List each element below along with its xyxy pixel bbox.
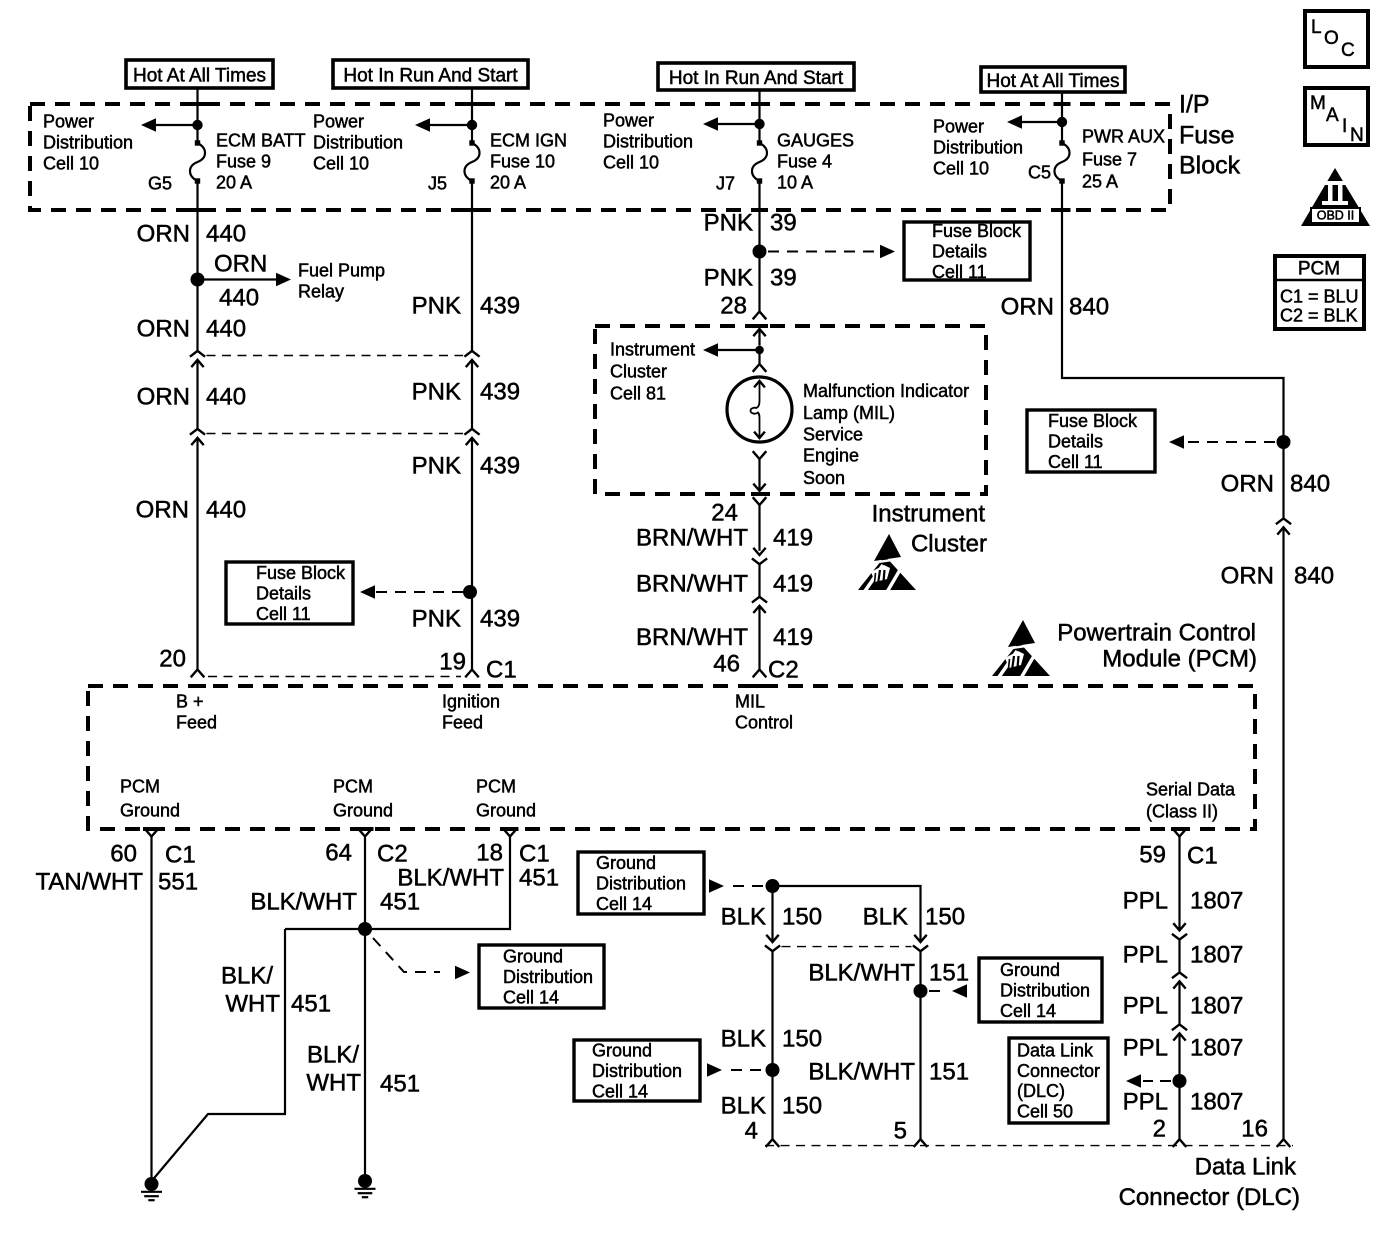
svg-text:840: 840 xyxy=(1290,471,1330,498)
svg-text:Fuse 4: Fuse 4 xyxy=(777,152,832,172)
svg-text:Fuse 9: Fuse 9 xyxy=(216,152,271,172)
PCM pin 46 connector fork xyxy=(753,670,767,678)
dashed arrow to Ground Distribution Cell 14 (right) xyxy=(929,984,967,998)
svg-text:C2: C2 xyxy=(768,657,799,684)
svg-text:C2 = BLK: C2 = BLK xyxy=(1280,306,1358,326)
svg-text:ORN: ORN xyxy=(1221,563,1274,590)
svg-text:440: 440 xyxy=(206,221,246,248)
svg-text:Connector: Connector xyxy=(1017,1061,1100,1081)
svg-text:M: M xyxy=(1310,93,1326,114)
svg-text:25 A: 25 A xyxy=(1082,172,1118,192)
label BLK/WHT 451 (pin 64) xyxy=(250,889,420,916)
svg-text:Fuse Block: Fuse Block xyxy=(1048,411,1138,431)
svg-text:439: 439 xyxy=(480,293,520,320)
callout box: Ground Distribution Cell 14 (right) xyxy=(979,958,1102,1022)
svg-text:Fuse Block: Fuse Block xyxy=(256,563,346,583)
label BLK/WHT 151 (2) xyxy=(808,1059,969,1086)
pin G5 xyxy=(148,174,172,194)
splice dashed line 1 xyxy=(207,355,464,357)
label BRN/WHT 419 (2) xyxy=(636,571,813,598)
svg-text:Fuse 7: Fuse 7 xyxy=(1082,150,1137,170)
legend icon MAIN xyxy=(1305,88,1368,146)
wire BLK 150 (pin 4 branch upper) xyxy=(771,886,773,942)
svg-text:Fuse 10: Fuse 10 xyxy=(490,152,555,172)
svg-text:10 A: 10 A xyxy=(777,173,813,193)
dashed arrow from Ground Distribution Cell 14 (lower) to splice xyxy=(707,1063,765,1077)
Instrument Cluster dashed outline xyxy=(595,326,986,494)
wire ORN 840: fuse 7 down, over to right, down to junction xyxy=(1062,181,1284,518)
label ORN 440 (4) xyxy=(136,497,246,524)
svg-text:Cell 14: Cell 14 xyxy=(592,1081,648,1101)
svg-text:BLK: BLK xyxy=(863,904,908,931)
wire PNK 439 segment: fuse 10 down xyxy=(471,181,473,351)
wire: Hot At All Times feed to Fuse 7 xyxy=(1061,92,1063,143)
DLC pin 16 fork xyxy=(1277,1139,1291,1147)
svg-text:BLK/: BLK/ xyxy=(221,963,273,990)
svg-text:Cell 11: Cell 11 xyxy=(256,604,311,624)
label box: Hot In Run And Start (ECM IGN feed) xyxy=(333,60,528,88)
svg-text:ORN: ORN xyxy=(214,251,267,278)
svg-text:4: 4 xyxy=(745,1118,758,1145)
svg-text:419: 419 xyxy=(773,525,813,552)
label box: Hot In Run And Start (GAUGES feed) xyxy=(658,63,854,90)
svg-text:151: 151 xyxy=(929,1059,969,1086)
svg-text:1807: 1807 xyxy=(1190,993,1243,1020)
cluster pin 24 fork below border xyxy=(753,497,767,551)
callout box: Fuse Block Details Cell 11 (top) xyxy=(904,221,1030,282)
label PNK 39 (1) xyxy=(704,210,797,237)
DLC pin 5 fork xyxy=(914,1139,928,1147)
wire PPL 1807 segment 2 xyxy=(1178,940,1180,973)
label PNK 439 (3) xyxy=(412,453,520,480)
svg-text:I/P: I/P xyxy=(1179,91,1210,119)
junction on fuse 4 feed xyxy=(754,119,764,129)
DLC pin 2 fork xyxy=(1173,1139,1187,1147)
svg-text:WHT: WHT xyxy=(306,1070,361,1097)
junction: fuse block details tap on ORN 840 xyxy=(1277,435,1291,449)
wire BLK/WHT 451 from pin 64 down xyxy=(364,837,366,1175)
svg-text:Serial Data: Serial Data xyxy=(1146,780,1236,800)
PCM pin 64 fork xyxy=(358,829,372,837)
svg-text:Distribution: Distribution xyxy=(313,133,403,153)
svg-text:Data Link: Data Link xyxy=(1017,1041,1094,1061)
svg-text:Powertrain Control: Powertrain Control xyxy=(1057,620,1256,647)
svg-text:Cell 14: Cell 14 xyxy=(1000,1001,1056,1021)
in-line connector (up) on PPL 1 xyxy=(1172,972,1187,988)
svg-text:59: 59 xyxy=(1139,842,1166,869)
pin J5 xyxy=(428,174,447,194)
svg-text:C2: C2 xyxy=(377,841,408,868)
svg-text:Distribution: Distribution xyxy=(43,133,133,153)
svg-text:Malfunction Indicator: Malfunction Indicator xyxy=(803,381,969,401)
svg-text:Cell 11: Cell 11 xyxy=(1048,452,1103,472)
svg-text:PPL: PPL xyxy=(1123,942,1168,969)
svg-text:(Class II): (Class II) xyxy=(1146,802,1218,822)
svg-text:451: 451 xyxy=(380,889,420,916)
callout box: Fuse Block Details Cell 11 (left) xyxy=(226,562,353,624)
svg-text:551: 551 xyxy=(158,869,198,896)
fuse F9 ECM BATT 20A xyxy=(190,140,205,183)
arrow to Power Distribution Cell 10 (branch 3) xyxy=(703,117,760,131)
dashed arrow to Ground Distribution Cell 14 (middle) xyxy=(373,938,470,979)
junction: DLC tap on PPL 1807 xyxy=(1173,1074,1187,1088)
pin label 28 xyxy=(720,293,747,320)
label: ECM IGN Fuse 10 20 A xyxy=(490,131,567,193)
svg-text:Cell 10: Cell 10 xyxy=(43,154,99,174)
label PPL 1807 (1) xyxy=(1123,888,1244,915)
svg-text:WHT: WHT xyxy=(225,991,280,1018)
svg-text:Instrument: Instrument xyxy=(610,340,695,360)
svg-text:Cell 14: Cell 14 xyxy=(596,894,652,914)
svg-text:840: 840 xyxy=(1069,294,1109,321)
svg-text:C1: C1 xyxy=(165,842,196,869)
label: GAUGES Fuse 4 10 A xyxy=(777,131,854,193)
pin J7 xyxy=(716,174,735,194)
svg-text:419: 419 xyxy=(773,624,813,651)
svg-text:Cell 11: Cell 11 xyxy=(932,262,987,282)
junction: fuel pump relay tap xyxy=(191,273,205,287)
svg-text:Instrument: Instrument xyxy=(872,501,986,528)
pin C5 xyxy=(1028,163,1051,183)
DLC connector face dashed line xyxy=(765,1145,1293,1147)
svg-text:Lamp (MIL): Lamp (MIL) xyxy=(803,403,895,423)
label: PCM Ground (pin 60) xyxy=(120,777,180,821)
svg-text:20: 20 xyxy=(159,646,186,673)
label: Serial Data (Class II) xyxy=(1146,780,1236,822)
svg-text:Ground: Ground xyxy=(1000,960,1060,980)
svg-text:Distribution: Distribution xyxy=(596,874,686,894)
label: Malfunction Indicator Lamp (MIL) Service Engine Soon xyxy=(803,381,969,488)
svg-text:Soon: Soon xyxy=(803,468,845,488)
arrow to Power Distribution Cell 10 (branch 2) xyxy=(415,118,472,132)
in-line connector (down) pin5 branch xyxy=(913,935,928,951)
label ORN 840 (1) xyxy=(1001,294,1109,321)
svg-text:Engine: Engine xyxy=(803,446,859,466)
svg-text:GAUGES: GAUGES xyxy=(777,131,854,151)
wire PNK 439 segment 3 down to PCM pin 19 xyxy=(471,438,473,670)
svg-text:Cluster: Cluster xyxy=(610,362,667,382)
svg-text:ECM IGN: ECM IGN xyxy=(490,131,567,151)
ground G103 (left) xyxy=(141,1177,162,1200)
arrow to Instrument Cluster Cell 81 xyxy=(703,343,760,357)
dashed arrow to Fuse Block Details Cell 11 (top) xyxy=(768,245,895,259)
svg-text:BLK: BLK xyxy=(721,1026,766,1053)
ESD symbol (PCM) xyxy=(992,620,1050,678)
svg-text:BRN/WHT: BRN/WHT xyxy=(636,525,748,552)
junction inside cluster xyxy=(755,346,764,355)
wire BRN/WHT segment 2 xyxy=(758,564,760,597)
svg-text:Fuse: Fuse xyxy=(1179,122,1235,150)
label: ECM BATT Fuse 9 20 A xyxy=(216,131,306,193)
connector dashed line above DLC xyxy=(782,946,912,948)
svg-text:Ground: Ground xyxy=(503,947,563,967)
svg-text:150: 150 xyxy=(925,904,965,931)
label: Power Distribution Cell 10 (branch 1) xyxy=(43,112,133,174)
svg-text:PNK: PNK xyxy=(412,293,461,320)
svg-text:BRN/WHT: BRN/WHT xyxy=(636,571,748,598)
svg-text:Fuel Pump: Fuel Pump xyxy=(298,261,385,281)
pin label 46 / C2 xyxy=(713,651,798,684)
label: Data Link Connector (DLC) (title) xyxy=(1119,1154,1300,1212)
svg-text:64: 64 xyxy=(325,840,352,867)
svg-text:B +: B + xyxy=(176,692,204,712)
svg-text:Details: Details xyxy=(932,242,987,262)
svg-text:Cell 50: Cell 50 xyxy=(1017,1101,1073,1121)
svg-text:TAN/WHT: TAN/WHT xyxy=(35,869,143,896)
svg-text:C5: C5 xyxy=(1028,163,1051,183)
svg-text:39: 39 xyxy=(770,210,797,237)
wire: Hot At All Times feed to Fuse 9 xyxy=(196,88,198,143)
label PNK 39 (2) xyxy=(704,265,797,292)
svg-text:451: 451 xyxy=(380,1071,420,1098)
junction: fuse block details tap on PNK 439 xyxy=(463,585,477,599)
label: Power Distribution Cell 10 (branch 4) xyxy=(933,117,1023,179)
svg-text:2: 2 xyxy=(1153,1116,1166,1143)
junction on fuse 10 feed xyxy=(467,120,477,130)
wire PPL 1807 segment 4 to DLC pin 2 xyxy=(1178,1034,1180,1140)
label BLK/ WHT 451 (zigzag branch) xyxy=(221,963,331,1018)
svg-text:Ground: Ground xyxy=(476,801,536,821)
wire ORN 440 segment: fuse 9 to in-line connector xyxy=(196,181,198,351)
PCM pin 20 connector fork xyxy=(191,670,205,678)
border crossing ticks xyxy=(143,104,1188,829)
label ORN 440 (1) xyxy=(137,221,246,248)
svg-text:PNK: PNK xyxy=(704,265,753,292)
svg-text:Hot At All Times: Hot At All Times xyxy=(986,71,1119,92)
label: Ignition Feed xyxy=(442,692,500,733)
PCM pin 60 fork xyxy=(145,829,159,837)
svg-text:N: N xyxy=(1350,125,1364,146)
DLC pin 4 fork xyxy=(766,1139,780,1147)
callout box: Fuse Block Details Cell 11 (right) xyxy=(1027,410,1155,472)
callout box: Ground Distribution Cell 14 (lower) xyxy=(574,1040,700,1101)
label BLK 150 (3) xyxy=(721,1093,822,1120)
wire PPL 1807 segment 1 xyxy=(1178,837,1180,931)
in-line connector on ORN 440 at second splice line xyxy=(190,429,205,445)
svg-text:39: 39 xyxy=(770,265,797,292)
svg-text:Feed: Feed xyxy=(176,713,217,733)
label BLK/WHT 451 (pin 18) xyxy=(397,865,559,892)
svg-text:Distribution: Distribution xyxy=(503,967,593,987)
svg-text:1807: 1807 xyxy=(1190,888,1243,915)
svg-text:OBD II: OBD II xyxy=(1317,209,1355,223)
label ORN 440 (2) xyxy=(137,316,246,343)
dashed arrow to Fuse Block Details Cell 11 (left) xyxy=(360,585,463,599)
svg-text:439: 439 xyxy=(480,453,520,480)
svg-text:Details: Details xyxy=(256,584,311,604)
svg-text:Hot In Run And Start: Hot In Run And Start xyxy=(343,65,518,86)
label ORN 840 (3) xyxy=(1221,563,1334,590)
label ORN 840 (2) xyxy=(1221,471,1330,498)
splice dashed line 2 xyxy=(207,433,464,435)
wire: Hot In Run And Start feed to Fuse 4 xyxy=(758,90,760,143)
svg-text:440: 440 xyxy=(206,384,246,411)
svg-text:Ground: Ground xyxy=(333,801,393,821)
svg-text:Module (PCM): Module (PCM) xyxy=(1102,646,1257,673)
wire BLK 150 pin 4 lower xyxy=(771,951,773,1139)
in-line connector on PNK 439 at first splice line xyxy=(464,351,479,367)
svg-text:ORN: ORN xyxy=(136,497,189,524)
arrow to Power Distribution Cell 10 (branch 4) xyxy=(1007,115,1062,129)
wire BLK 150 (pin 5 branch upper) xyxy=(773,886,921,942)
callout box: Ground Distribution Cell 14 (middle) xyxy=(479,945,604,1008)
svg-text:PNK: PNK xyxy=(412,606,461,633)
label PNK 439 (4) xyxy=(412,606,520,633)
pin label 24 xyxy=(711,500,738,527)
svg-text:ORN: ORN xyxy=(1001,294,1054,321)
arrowhead into cluster pin 28 xyxy=(753,329,765,346)
instrument cluster pin 28 fork xyxy=(753,312,767,320)
svg-text:440: 440 xyxy=(206,316,246,343)
svg-text:Ground: Ground xyxy=(120,801,180,821)
Powertrain Control Module dashed outline xyxy=(88,686,1255,829)
svg-text:150: 150 xyxy=(782,1026,822,1053)
label ORN 440 (fuel pump tap) xyxy=(214,251,267,312)
label: B+ Feed xyxy=(176,692,217,733)
svg-text:ORN: ORN xyxy=(137,221,190,248)
svg-text:20 A: 20 A xyxy=(490,173,526,193)
svg-text:Cell 81: Cell 81 xyxy=(610,384,666,404)
svg-text:A: A xyxy=(1326,105,1339,126)
svg-text:Power: Power xyxy=(313,112,364,132)
svg-text:ORN: ORN xyxy=(137,316,190,343)
junction on fuse 9 feed xyxy=(192,120,202,130)
svg-text:28: 28 xyxy=(720,293,747,320)
svg-text:Distribution: Distribution xyxy=(933,138,1023,158)
svg-text:419: 419 xyxy=(773,571,813,598)
svg-text:151: 151 xyxy=(929,960,969,987)
wire PNK 39: fuse 4 to instrument cluster pin 28 xyxy=(758,181,760,312)
callout box: Data Link Connector (DLC) Cell 50 xyxy=(1009,1038,1108,1123)
svg-text:G5: G5 xyxy=(148,174,172,194)
svg-text:PNK: PNK xyxy=(704,210,753,237)
svg-text:Cell 14: Cell 14 xyxy=(503,987,559,1007)
label: Fuel Pump Relay xyxy=(298,261,385,302)
label BLK 150 (2) xyxy=(721,1026,822,1053)
in-line connector (up) on ORN 840 xyxy=(1276,518,1291,534)
svg-text:Cell 10: Cell 10 xyxy=(933,159,989,179)
svg-text:Data Link: Data Link xyxy=(1195,1154,1297,1181)
svg-text:Fuse Block: Fuse Block xyxy=(932,221,1022,241)
label PPL 1807 (2) xyxy=(1123,942,1244,969)
label box: Hot At All Times (ECM BATT feed) xyxy=(126,60,273,88)
junction: fuse block details tap on PNK 39 xyxy=(753,245,767,259)
label BLK 150 (right upper) xyxy=(863,904,965,931)
svg-text:840: 840 xyxy=(1294,563,1334,590)
MIL lamp bulb xyxy=(727,377,792,442)
label PNK 439 (1) xyxy=(412,293,520,320)
PCM pin 19 connector fork xyxy=(465,670,479,678)
dashed arrow to Fuse Block Details Cell 11 (right) xyxy=(1169,435,1275,449)
label BRN/WHT 419 (1) xyxy=(636,525,813,552)
label: Power Distribution Cell 10 (branch 3) xyxy=(603,111,693,173)
svg-text:1807: 1807 xyxy=(1190,1035,1243,1062)
svg-text:60: 60 xyxy=(110,841,137,868)
svg-text:C: C xyxy=(1341,40,1355,61)
svg-text:19: 19 xyxy=(439,649,466,676)
label box: Hot At All Times (PWR AUX feed) xyxy=(981,67,1125,92)
I/P Fuse Block dashed outline xyxy=(30,104,1170,210)
label BLK/ WHT 451 (pin 64 lower) xyxy=(306,1042,420,1098)
svg-text:C1: C1 xyxy=(519,841,550,868)
svg-text:J7: J7 xyxy=(716,174,735,194)
svg-text:(DLC): (DLC) xyxy=(1017,1081,1065,1101)
junction of BLK/WHT grounds xyxy=(358,922,372,936)
svg-text:Power: Power xyxy=(43,112,94,132)
svg-text:BRN/WHT: BRN/WHT xyxy=(636,624,748,651)
junction: BLK 150 splice xyxy=(766,879,780,893)
svg-text:Connector (DLC): Connector (DLC) xyxy=(1119,1184,1300,1211)
pin label 4 xyxy=(745,1118,758,1145)
svg-text:PPL: PPL xyxy=(1123,993,1168,1020)
svg-text:PPL: PPL xyxy=(1123,1089,1168,1116)
pin label 2 xyxy=(1153,1116,1166,1143)
svg-text:Cell 10: Cell 10 xyxy=(313,154,369,174)
wire MIL lamp to cluster pin 24 xyxy=(753,451,767,491)
svg-text:Feed: Feed xyxy=(442,713,483,733)
label: Powertrain Control Module (PCM) (title) xyxy=(1057,620,1257,673)
pin label 18 / C1 xyxy=(476,840,549,868)
svg-text:PPL: PPL xyxy=(1123,888,1168,915)
legend icon OBD II triangle xyxy=(1301,168,1370,226)
dashed arrow to Data Link Connector (DLC) Cell 50 xyxy=(1126,1074,1171,1088)
svg-text:440: 440 xyxy=(219,285,259,312)
fuse F10 ECM IGN 20A xyxy=(465,140,480,183)
svg-text:BLK/WHT: BLK/WHT xyxy=(808,1059,915,1086)
label PPL 1807 (5) xyxy=(1123,1089,1244,1116)
label: Power Distribution Cell 10 (branch 2) xyxy=(313,112,403,174)
svg-text:Block: Block xyxy=(1179,152,1241,180)
svg-text:ORN: ORN xyxy=(1221,471,1274,498)
svg-text:MIL: MIL xyxy=(735,692,765,712)
label TAN/WHT 551 xyxy=(35,869,198,896)
svg-text:440: 440 xyxy=(206,497,246,524)
svg-text:PNK: PNK xyxy=(412,379,461,406)
svg-text:C1: C1 xyxy=(1187,843,1218,870)
svg-text:PCM: PCM xyxy=(1298,258,1340,279)
svg-text:Distribution: Distribution xyxy=(1000,981,1090,1001)
svg-text:1807: 1807 xyxy=(1190,942,1243,969)
svg-text:PCM: PCM xyxy=(333,777,373,797)
I/P Fuse Block label xyxy=(1179,91,1241,180)
svg-text:PWR AUX: PWR AUX xyxy=(1082,127,1165,147)
svg-text:PPL: PPL xyxy=(1123,1035,1168,1062)
svg-text:46: 46 xyxy=(713,651,740,678)
svg-text:439: 439 xyxy=(480,606,520,633)
in-line connector (down) on PPL xyxy=(1172,923,1187,939)
fuse F7 PWR AUX 25A xyxy=(1055,140,1070,183)
pin label 60 / C1 xyxy=(110,841,195,869)
svg-text:Power: Power xyxy=(933,117,984,137)
pin label 16 xyxy=(1241,1116,1268,1143)
junction on fuse 7 feed xyxy=(1057,117,1067,127)
label PNK 439 (2) xyxy=(412,379,520,406)
svg-text:1807: 1807 xyxy=(1190,1089,1243,1116)
svg-text:Distribution: Distribution xyxy=(603,132,693,152)
svg-text:BLK/: BLK/ xyxy=(307,1042,359,1069)
legend icon LOC xyxy=(1305,11,1368,67)
label BLK/WHT 151 (1) xyxy=(808,960,969,987)
pin label 5 xyxy=(894,1118,907,1145)
svg-text:Power: Power xyxy=(603,111,654,131)
in-line connector on PNK 439 at second splice line xyxy=(464,429,479,445)
svg-text:Ground: Ground xyxy=(596,853,656,873)
svg-text:L: L xyxy=(1311,17,1322,38)
svg-text:Ground: Ground xyxy=(592,1041,652,1061)
svg-text:PCM: PCM xyxy=(476,777,516,797)
label BRN/WHT 419 (3) xyxy=(636,624,813,651)
svg-text:BLK: BLK xyxy=(721,1093,766,1120)
